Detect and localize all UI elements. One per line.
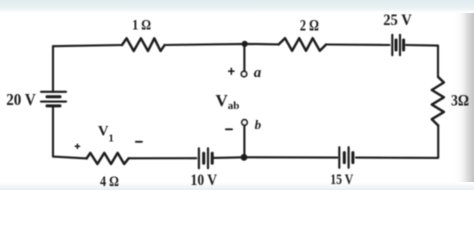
label 20 V xyxy=(6,90,36,109)
node a terminal circle xyxy=(241,71,246,76)
wire top-middle segment xyxy=(165,44,279,45)
label 15 V xyxy=(330,172,353,188)
label 2 ohm xyxy=(300,18,319,35)
svg-text:10 V: 10 V xyxy=(191,172,218,189)
wire top-right segment xyxy=(326,43,389,46)
label 25 V xyxy=(383,12,412,29)
label 3 ohm xyxy=(451,93,469,110)
svg-text:4 Ω: 4 Ω xyxy=(100,173,119,190)
wire bottom-middle segment xyxy=(213,156,337,159)
resistor 1-ohm xyxy=(122,38,165,51)
svg-text:b: b xyxy=(255,117,262,132)
svg-text:a: a xyxy=(254,65,262,81)
wire right-bottom segment xyxy=(356,126,438,158)
svg-text:25 V: 25 V xyxy=(383,12,412,29)
wire top-left segment xyxy=(53,45,122,46)
label 10 V xyxy=(191,172,218,189)
battery 20V xyxy=(41,92,66,106)
svg-text:3Ω: 3Ω xyxy=(451,93,469,110)
wire top-right corner segment xyxy=(406,45,438,77)
svg-text:2 Ω: 2 Ω xyxy=(300,18,319,35)
svg-text:20 V: 20 V xyxy=(6,90,36,109)
battery 10V xyxy=(199,148,212,168)
wire bottom-left corner segment xyxy=(53,106,87,158)
resistor 3-ohm xyxy=(432,77,444,126)
battery 25V xyxy=(392,35,403,55)
wire stub node b xyxy=(243,126,245,158)
resistor 2-ohm xyxy=(279,38,326,51)
svg-text:1 Ω: 1 Ω xyxy=(132,16,151,33)
battery 15V xyxy=(339,147,353,168)
label Vab xyxy=(216,91,240,112)
polarity plus at resistor 4-ohm xyxy=(75,144,79,148)
label node a xyxy=(254,65,262,81)
label node b xyxy=(255,117,262,132)
label 1 ohm xyxy=(132,16,151,33)
junction dot top (node a tap) xyxy=(242,41,248,47)
polarity minus at V1 xyxy=(136,141,142,143)
svg-text:15 V: 15 V xyxy=(330,172,353,188)
label V1 xyxy=(98,123,114,144)
wire bottom segment left of 10V xyxy=(129,157,197,159)
resistor 4-ohm xyxy=(87,153,129,164)
wire left segment above 20V xyxy=(52,46,54,92)
node b terminal circle xyxy=(242,120,247,125)
polarity minus at node b xyxy=(226,128,232,130)
junction dot bottom (node b tap) xyxy=(241,154,248,161)
polarity plus at node a xyxy=(229,68,234,74)
label 4 ohm xyxy=(100,173,119,190)
wire stub node a xyxy=(243,44,245,71)
